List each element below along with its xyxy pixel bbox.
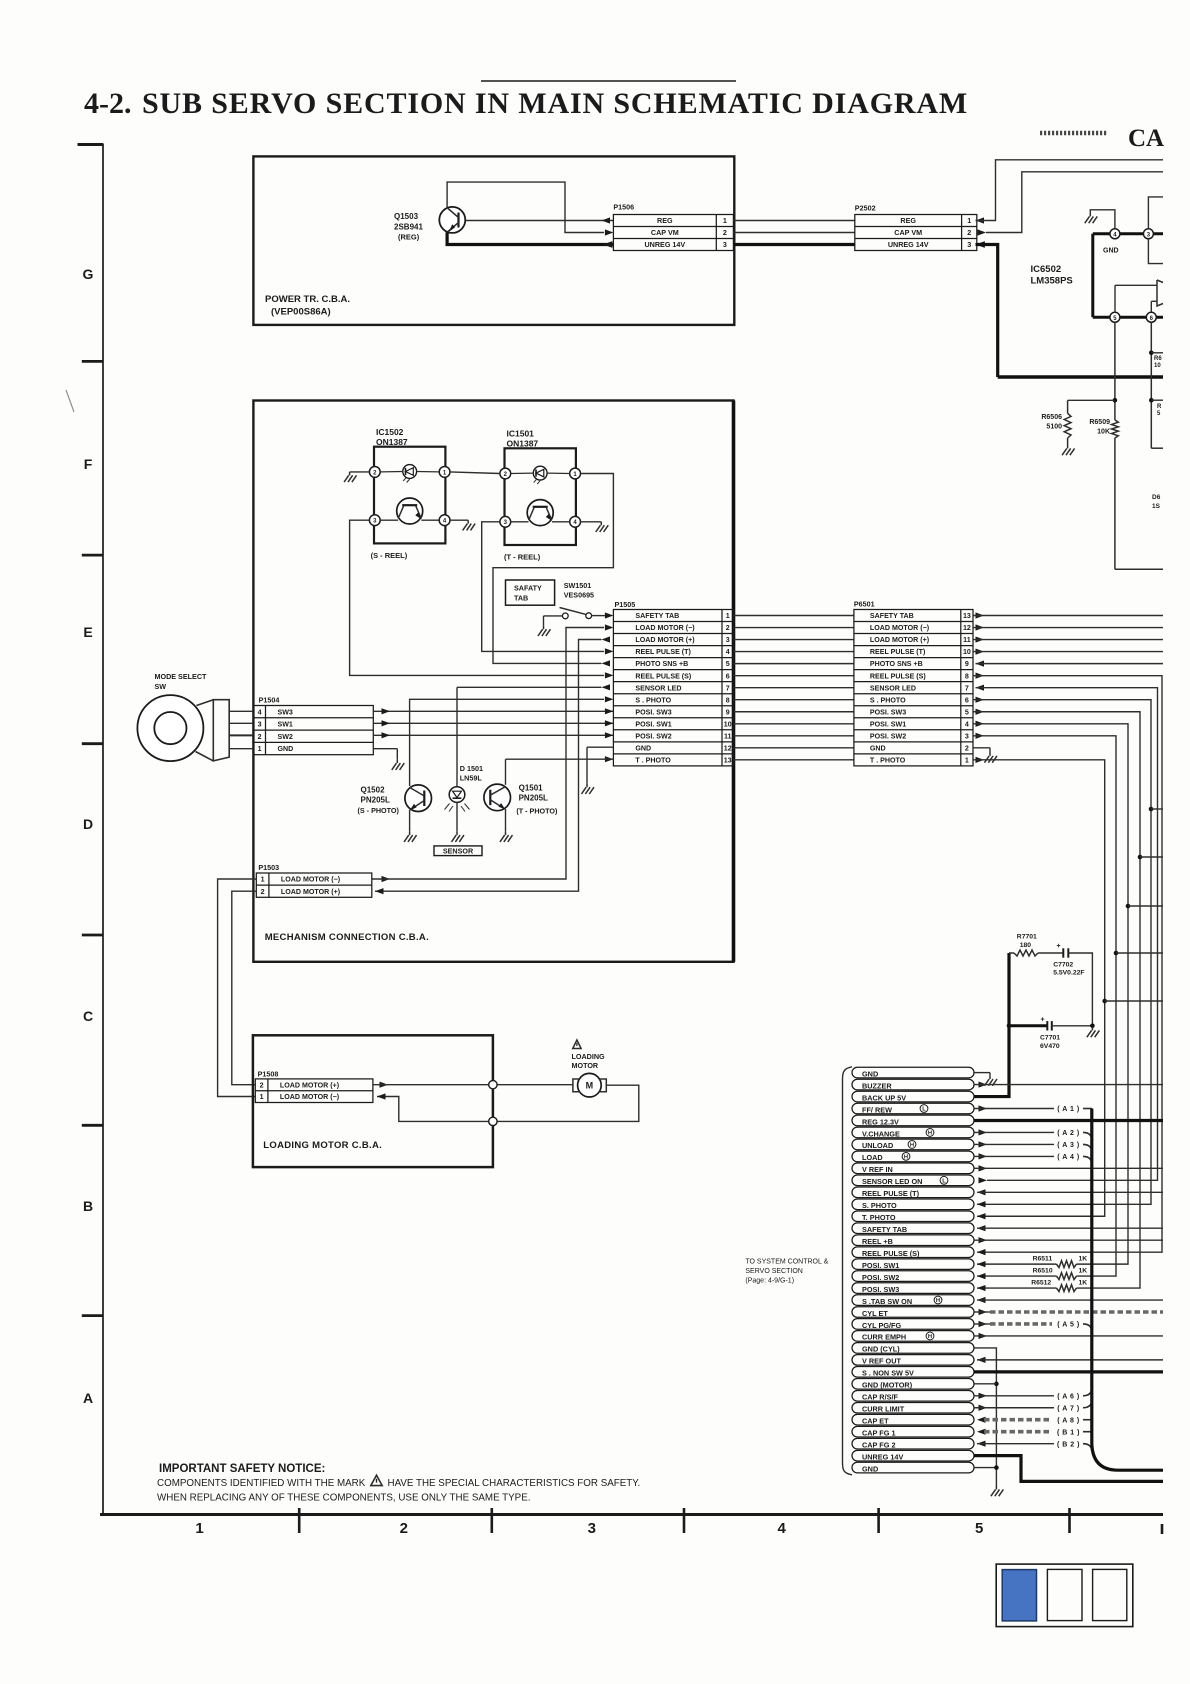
svg-text:P1503: P1503 [258,863,279,872]
svg-text:1: 1 [723,216,727,225]
svg-text:Q1503: Q1503 [394,212,419,221]
svg-text:2: 2 [400,1520,408,1537]
wire CYL PG/FG shielded to (A 5) [974,1321,1092,1332]
wire C7702 to ground node [1068,953,1092,1026]
svg-text:IC6502: IC6502 [1031,264,1062,275]
left margin ruler [78,144,104,1516]
svg-text:A: A [83,1390,93,1406]
wire CAP FG1 shielded from (B 1) [977,1429,1092,1437]
svg-text:UNREG 14V: UNREG 14V [644,240,685,249]
connector P1506 label [613,203,634,212]
wire CURR EMPH out [974,1333,1163,1339]
svg-text:3: 3 [967,240,971,249]
svg-text:CAP R/S/F: CAP R/S/F [862,1393,898,1402]
wire P6501-12 LOAD MOTOR(-) out [973,624,1163,630]
node T.PHOTO branch [1102,999,1163,1004]
ground at C7701 [1087,1027,1099,1037]
LED D1501 [445,787,470,812]
feedthrough node + [489,1081,497,1089]
wire P6501-13 SAFETY TAB out [973,612,1163,618]
svg-text:3: 3 [726,636,730,644]
svg-text:WHEN REPLACING ANY OF THESE CO: WHEN REPLACING ANY OF THESE COMPONENTS, … [157,1493,530,1504]
ground at Q1501 [500,832,512,842]
wire list GND to ground [974,1073,990,1076]
svg-text:UNREG 14V: UNREG 14V [862,1452,903,1461]
MODE SELECT SW label [155,672,208,691]
svg-text:P1506: P1506 [613,203,634,212]
svg-text:( B 1 ): ( B 1 ) [1057,1429,1080,1436]
SENSOR box [434,846,482,856]
wire CYL ET shielded [974,1309,1163,1315]
svg-text:MOTOR: MOTOR [572,1061,599,1070]
svg-text:5: 5 [975,1520,983,1537]
svg-text:2: 2 [965,744,969,752]
page indicator 2 [1047,1569,1082,1620]
wire pin6 net [1151,322,1163,448]
connector P6501 [854,610,973,766]
LOADING MOTOR board outline [253,1035,493,1167]
connector P1503 label [258,863,279,872]
svg-text:GND: GND [278,745,294,753]
svg-text:SENSOR LED: SENSOR LED [870,684,916,692]
wire REEL PULSE (T) net: IC1501 pin3 to P1505-4 [482,522,614,655]
wire CAP FG2 from (B 2) [977,1441,1092,1452]
IC1502 labels [376,427,408,447]
svg-text:G: G [83,266,94,282]
svg-text:3: 3 [258,721,262,729]
svg-text:+: + [1041,1017,1045,1024]
svg-text:12: 12 [963,624,971,632]
svg-text:P1508: P1508 [258,1069,279,1078]
svg-text:R6509: R6509 [1089,419,1110,426]
wire Q1502 emitter to ground [409,810,411,832]
wire IC1502 pin2 to ground [350,471,370,473]
svg-text:C7702: C7702 [1053,962,1073,969]
wire P6501-9 PHOTO SNS +B in [976,661,1164,667]
svg-text:Q1501: Q1501 [519,784,544,793]
capacitor C7701 [1009,1017,1092,1051]
svg-text:UNREG 14V: UNREG 14V [888,240,929,249]
wire CURR LIMIT to (A 7) [974,1400,1092,1413]
mode select switch rotor [137,695,203,761]
svg-text:LOAD MOTOR (+): LOAD MOTOR (+) [281,888,341,896]
svg-text:SUB SERVO SECTION IN MAIN SCHE: SUB SERVO SECTION IN MAIN SCHEMATIC DIAG… [142,87,968,120]
transistor Q1502 labels [358,786,400,816]
svg-text:GND: GND [635,744,651,752]
switch SW1501 [560,608,592,619]
heavy UNREG 14V bus [998,375,1163,378]
svg-text:3: 3 [965,732,969,740]
svg-text:S . NON SW 5V: S . NON SW 5V [862,1369,914,1378]
MECHANISM CONNECTION board outline [253,401,733,962]
wire LOAD to (A 4) [974,1153,1092,1164]
svg-text:REG: REG [900,216,916,225]
transistor Q1503 label [394,212,423,242]
svg-text:8: 8 [965,672,969,680]
resistor R6512 [977,1280,1087,1292]
svg-text:TAB: TAB [514,594,528,603]
svg-text:( A 8 ): ( A 8 ) [1057,1417,1079,1424]
svg-text:HAVE THE SPECIAL CHARACTERISTI: HAVE THE SPECIAL CHARACTERISTICS FOR SAF… [388,1478,641,1489]
svg-text:VES0695: VES0695 [564,591,594,600]
wire V.CHANGE to (A 2) [974,1129,1092,1140]
wire P1508-2 to motor + [373,1082,573,1088]
list brace [843,1067,853,1475]
connector P1508 [255,1079,373,1103]
svg-text:4: 4 [778,1520,787,1537]
svg-text:R: R [1157,404,1162,410]
heading CA (CAPSTAN, cut off) [1128,125,1164,152]
wire P1503-1 left to P1508 [218,879,257,1097]
svg-text:4-2.: 4-2. [84,87,132,120]
wire GND (CYL) net [974,1348,996,1486]
svg-text:P1505: P1505 [615,600,636,609]
SAFATY TAB box [506,580,555,605]
wire P1506-2 to P2502-2 (CAP VM) [733,232,854,234]
svg-text:H: H [928,1334,932,1340]
svg-text:SAFETY TAB: SAFETY TAB [862,1225,907,1234]
IC1501 labels [507,428,539,448]
capacitor C7702 [1038,943,1085,977]
svg-text:4: 4 [965,720,969,728]
wire V REF IN out [974,1165,1163,1171]
svg-text:6: 6 [965,696,969,704]
svg-text:CYL PG/FG: CYL PG/FG [862,1321,902,1330]
safety notice line 1 [157,1475,640,1489]
svg-text:5: 5 [965,708,969,716]
svg-text:M: M [586,1081,594,1091]
svg-text:2: 2 [726,624,730,632]
svg-text:(Page: 4-9/G-1): (Page: 4-9/G-1) [745,1278,794,1285]
svg-text:12: 12 [724,744,732,752]
wire P1506-3 to P2502-3 (UNREG 14V) [733,243,854,246]
svg-text:LOAD MOTOR (−): LOAD MOTOR (−) [280,1093,340,1101]
svg-text:R6510: R6510 [1033,1268,1053,1275]
svg-text:T . PHOTO: T . PHOTO [870,756,906,764]
resistor R6509 [1089,419,1118,438]
ground at IC6502 pin 4 [1085,213,1097,223]
ground at D1501 [451,832,463,842]
svg-text:LM358PS: LM358PS [1031,276,1073,287]
svg-text:MECHANISM CONNECTION C.B.: MECHANISM CONNECTION C.B.A. [265,932,429,943]
ground at P1505-12 [581,784,593,794]
svg-text:REEL PULSE (S): REEL PULSE (S) [635,672,691,680]
node C7701 left [1007,1024,1012,1029]
wire R6506 branch [1068,400,1115,445]
wires P1505 to P6501 (13 lines) [734,616,854,760]
svg-text:10: 10 [963,648,971,656]
safety notice line 2 [157,1493,530,1504]
svg-text:SAFATY: SAFATY [514,584,542,593]
wire CAP ET shielded from (A 8) [977,1417,1092,1425]
svg-text:5: 5 [726,660,730,668]
wire SENSOR LED net: P1505-7 to D1501 [457,684,610,787]
ground at SW1501 [538,626,550,636]
svg-text:S .TAB SW ON: S .TAB SW ON [862,1297,912,1306]
wire REG 12.3V heavy [974,1119,1163,1122]
svg-text:LOAD MOTOR (+): LOAD MOTOR (+) [280,1081,340,1089]
svg-text:R7701: R7701 [1017,934,1037,941]
page indicator panel [996,1564,1133,1627]
svg-text:11: 11 [724,732,732,740]
svg-text:POSI. SW1: POSI. SW1 [870,720,906,728]
op-amp U1 (clipped) [1115,280,1163,312]
svg-text:P2502: P2502 [855,204,876,213]
svg-text:1K: 1K [1079,1280,1088,1287]
svg-text:B: B [83,1198,93,1214]
board label POWER TR. C.B.A. (VEP00S86A) [265,294,350,318]
page indicator active (blue) [1002,1570,1036,1621]
svg-text:7: 7 [965,684,969,692]
svg-text:POSI. SW3: POSI. SW3 [862,1285,899,1294]
svg-text:POSI. SW3: POSI. SW3 [870,708,906,716]
wire REEL PULSE (S) net: IC1502 pin3 to P1505-6 [350,520,614,678]
svg-text:GND: GND [870,744,886,752]
svg-text:2: 2 [261,888,265,896]
svg-text:CAP FG 2: CAP FG 2 [862,1440,896,1449]
connector P1508 label [258,1069,279,1078]
node pin6 stub lower [1149,398,1163,417]
node pin5/R6506 [1113,398,1118,403]
wire GND lead [229,748,253,750]
svg-text:1: 1 [195,1520,203,1537]
svg-text:SW1: SW1 [278,721,293,729]
resistor R6511 [977,1256,1087,1268]
svg-text:CURR EMPH: CURR EMPH [862,1333,906,1342]
svg-text:E: E [83,624,92,640]
wire P6501-4 POSI SW1 net [973,721,1128,1264]
svg-text:4: 4 [726,648,730,656]
svg-text:10: 10 [1154,363,1161,369]
svg-text:+: + [1057,943,1061,950]
svg-text:CA: CA [1128,125,1164,152]
svg-text:REEL PULSE (T): REEL PULSE (T) [862,1189,920,1198]
wire D1501 to ground [456,802,458,831]
connector P6501 label [854,600,875,609]
svg-text:(REG): (REG) [398,233,420,242]
svg-text:CAP VM: CAP VM [894,228,922,237]
svg-text:1K: 1K [1079,1268,1088,1275]
svg-text:V REF OUT: V REF OUT [862,1357,901,1366]
svg-text:UNLOAD: UNLOAD [862,1141,893,1150]
photo transistor Q1502 [405,785,432,812]
wire pin4 to ground [1090,210,1115,229]
wire pin3 lower stub [1148,239,1163,264]
svg-text:SERVO SECTION: SERVO SECTION [745,1268,802,1275]
svg-text:REEL PULSE (T): REEL PULSE (T) [635,648,691,656]
ground at Q1502 [404,832,416,842]
svg-text:V.CHANGE: V.CHANGE [862,1129,900,1138]
node GND (MOTOR) [994,1382,999,1387]
resistor R6506 [1041,413,1071,438]
svg-text:REEL PULSE (S): REEL PULSE (S) [870,672,926,680]
svg-text:COMPONENTS IDENTIFIED WITH THE: COMPONENTS IDENTIFIED WITH THE MARK [157,1478,366,1489]
page indicator 3 [1093,1569,1127,1620]
row letters G-A [83,266,94,1406]
node POSI SW1 branch [1126,904,1163,909]
svg-text:SENSOR LED ON: SENSOR LED ON [862,1177,922,1186]
svg-text:POSI. SW2: POSI. SW2 [862,1273,899,1282]
svg-text:LOAD: LOAD [862,1153,883,1162]
svg-text:( A 6 ): ( A 6 ) [1057,1393,1079,1400]
wire P6501-6 S.PHOTO to lower list [973,697,1151,1208]
svg-text:T. PHOTO: T. PHOTO [862,1213,896,1222]
svg-text:180: 180 [1020,942,1032,949]
svg-text:REEL +B: REEL +B [862,1237,893,1246]
column numbers 1-5 [195,1520,983,1537]
wire S.TAB SW ON in [977,1297,1163,1303]
svg-text:POSI. SW1: POSI. SW1 [635,720,671,728]
pin-4 GND label [1103,248,1119,255]
svg-text:R6: R6 [1154,356,1162,362]
ground below R6506 [1062,445,1074,455]
label (S-REEL) [371,551,408,560]
svg-text:LOADING MOTOR C.B.A.: LOADING MOTOR C.B.A. [263,1140,382,1151]
svg-text:CAP ET: CAP ET [862,1417,889,1426]
wire Q1503 collector to P1506 CAP VM [447,182,613,236]
svg-text:1S: 1S [1152,503,1161,510]
wire POSI SW2 net: P1504 to P1505-11 [373,732,613,738]
svg-text:(S - PHOTO): (S - PHOTO) [358,806,400,815]
svg-text:P1504: P1504 [259,696,280,705]
wire Q1503 base to P1506 REG [466,217,613,223]
board label LOADING MOTOR C.B.A. [263,1140,382,1151]
svg-text:L: L [942,1179,946,1185]
wire list GND bottom [974,1467,996,1469]
svg-text:FF/ REW: FF/ REW [862,1105,892,1114]
wire P6501-7 SENSOR LED net [976,685,1158,1184]
svg-text:C: C [83,1008,93,1024]
wire P6501-3 POSI SW2 net [973,733,1116,1276]
node POSI SW3 branch [1138,855,1163,860]
svg-text:PN205L: PN205L [519,794,548,803]
svg-text:1: 1 [967,216,971,225]
svg-text:L: L [922,1107,926,1113]
svg-text:(T - PHOTO): (T - PHOTO) [516,807,558,816]
svg-text:2: 2 [967,228,971,237]
scan artifact stroke [66,390,74,412]
wire SAFETY TAB in [977,1225,1163,1231]
node S.PHOTO branch [1149,807,1163,812]
wire LOAD MOTOR (-) net: P1503-1 to P1505-2 [372,624,614,882]
wire BACK UP 5V heavy riser [974,953,1009,1097]
title 4-2. SUB SERVO SECTION IN MAIN SCHEMATIC DIAGRAM [84,87,968,120]
svg-text:R6506: R6506 [1041,414,1062,421]
ground at P6501-2 [984,753,996,763]
IC6502 label [1031,264,1073,287]
connector P1503 [256,873,372,897]
svg-text:PHOTO SNS +B: PHOTO SNS +B [870,660,923,668]
wire P6501-8 REEL PULSE(S) to lower list [973,673,1162,1256]
svg-text:GND: GND [1103,248,1119,255]
svg-text:LOAD MOTOR (+): LOAD MOTOR (+) [870,636,930,644]
svg-text:Q1502: Q1502 [361,786,386,795]
svg-text:( A 7 ): ( A 7 ) [1057,1405,1079,1412]
svg-text:GND: GND [862,1464,878,1473]
wire POSI SW3 net: P1504 to P1505-9 [373,708,613,714]
svg-text:LOADING: LOADING [572,1052,606,1061]
svg-text:7: 7 [726,684,730,692]
svg-text:9: 9 [726,708,730,716]
ground at P1504 GND [392,760,404,770]
svg-text:TO SYSTEM CONTROL &: TO SYSTEM CONTROL & [745,1259,828,1266]
svg-text:GND (MOTOR): GND (MOTOR) [862,1381,913,1390]
system control connector list [852,1067,974,1473]
svg-text:SW: SW [155,682,167,691]
svg-text:( A 1 ): ( A 1 ) [1057,1106,1079,1113]
svg-text:H: H [904,1155,908,1161]
connector P1505 [613,610,733,766]
svg-text:POSI. SW2: POSI. SW2 [870,732,906,740]
svg-text:( A 5 ): ( A 5 ) [1057,1322,1079,1329]
svg-text:T . PHOTO: T . PHOTO [635,756,671,764]
wire V REF OUT in [977,1357,1163,1363]
svg-text:SENSOR: SENSOR [443,847,474,856]
svg-text:5100: 5100 [1046,424,1062,431]
svg-text:5.5V0.22F: 5.5V0.22F [1053,970,1084,977]
wire S.PHOTO net: Q1502 to P1505-8 [410,696,614,786]
wire P1504 GND to ground [373,749,397,760]
connector P1506 [613,215,733,251]
svg-text:PHOTO SNS +B: PHOTO SNS +B [635,660,688,668]
IMPORTANT SAFETY NOTICE heading [159,1463,325,1475]
resistor R6510 [977,1268,1087,1280]
svg-text:POWER TR. C.B.A.: POWER TR. C.B.A. [265,294,350,305]
connector P1504 [254,706,374,755]
svg-text:D 1501: D 1501 [460,764,483,773]
svg-text:S. PHOTO: S. PHOTO [862,1201,897,1210]
svg-text:( A 3 ): ( A 3 ) [1057,1142,1079,1149]
svg-text:REG: REG [657,216,673,225]
diode D6xxx label (clipped) [1152,494,1161,510]
svg-text:SW3: SW3 [278,708,293,716]
svg-text:SENSOR LED: SENSOR LED [635,684,681,692]
wire P2502 UNREG 14V heavy feed [976,241,998,377]
switch SW1501 label [564,581,594,600]
svg-text:SAFETY TAB: SAFETY TAB [635,612,679,620]
svg-text:LN59L: LN59L [460,774,483,783]
POWER TR. C.B.A. board outline [253,156,734,325]
mode select switch housing [196,700,230,761]
svg-text:( A 4 ): ( A 4 ) [1057,1154,1079,1161]
svg-text:SAFETY TAB: SAFETY TAB [870,612,914,620]
wire pin5 net [1115,322,1163,569]
svg-text:ON1387: ON1387 [507,439,539,449]
connector P2502 label [855,204,876,213]
wire P6501-1 T.PHOTO net [973,757,1105,1220]
svg-text:1: 1 [260,1093,264,1101]
svg-text:CURR LIMIT: CURR LIMIT [862,1405,905,1414]
node list GND bottom [994,1465,999,1470]
svg-text:POSI. SW3: POSI. SW3 [635,708,671,716]
IC6502 pin 6 [1146,312,1156,322]
resistor R7701 [1009,934,1038,957]
svg-text:LOAD MOTOR (−): LOAD MOTOR (−) [870,624,930,632]
transistor Q1501 labels [516,784,558,816]
IC6502 pin 5 [1110,312,1120,322]
svg-text:8: 8 [726,696,730,704]
svg-text:POSI. SW1: POSI. SW1 [862,1261,899,1270]
node C7701 right [1090,1024,1095,1029]
svg-text:6: 6 [726,672,730,680]
svg-text:H: H [928,1131,932,1137]
svg-text:LOAD MOTOR (−): LOAD MOTOR (−) [281,876,341,884]
signal bus to system control [1092,1109,1163,1471]
svg-text:D: D [83,816,93,832]
svg-text:BACK UP 5V: BACK UP 5V [862,1093,906,1102]
wire UNREG 14V heavy out [974,1456,1163,1482]
ground at IC1501 pin4 [596,522,608,532]
